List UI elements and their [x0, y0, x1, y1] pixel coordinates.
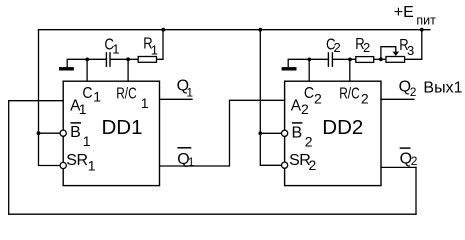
- node : R1 rail tee: [161, 28, 165, 32]
- svg-text:1: 1: [79, 101, 87, 117]
- node : C1 top tee: [85, 58, 89, 62]
- wire : C2 to R2: [333, 58, 356, 60]
- node : R/C2 top tee: [348, 58, 352, 62]
- wire : feedback left vertical: [8, 101, 10, 215]
- resistor R1: [138, 57, 156, 63]
- svg-text:DD2: DD2: [322, 116, 363, 139]
- wire : A1 input from feedback: [9, 100, 64, 102]
- svg-text:1: 1: [112, 41, 119, 56]
- svg-text:R/C: R/C: [339, 85, 360, 102]
- resistor R2: [356, 57, 374, 63]
- svg-text:2: 2: [305, 134, 313, 150]
- svg-text:2: 2: [411, 154, 418, 168]
- capacitor C2: [328, 52, 332, 67]
- svg-text:1: 1: [151, 42, 158, 57]
- svg-text:2: 2: [334, 40, 341, 55]
- svg-text:2: 2: [309, 157, 317, 173]
- label Q2-bar: [400, 147, 411, 149]
- svg-text:2: 2: [410, 85, 417, 99]
- svg-text:SR: SR: [289, 152, 310, 169]
- wire : +E power rail: [39, 29, 431, 31]
- block DD2: [285, 81, 381, 185]
- svg-text:1: 1: [141, 95, 149, 111]
- wire : C1 to R1: [111, 58, 139, 60]
- svg-text:1: 1: [83, 133, 91, 149]
- capacitor C1: [106, 52, 110, 67]
- svg-text:2: 2: [301, 101, 309, 117]
- node : R3 rail tee: [420, 28, 424, 32]
- wire : R/C1 pin vertical: [127, 59, 129, 81]
- node : B2 tee: [258, 131, 262, 135]
- svg-text:R/C: R/C: [116, 85, 137, 102]
- R3 wiper arrowhead: [393, 52, 400, 56]
- svg-text:Вых1: Вых1: [423, 79, 462, 96]
- inversion bubble B1: [60, 130, 66, 136]
- pin label B2 with overbar: [292, 122, 303, 124]
- svg-text:DD1: DD1: [102, 116, 143, 139]
- wire : B2 branch: [260, 132, 281, 134]
- node : C2 top tee: [308, 58, 312, 62]
- wire : Q1-bar to A2: [160, 100, 285, 166]
- wire : Q2-bar output: [381, 166, 416, 168]
- block DD1: [63, 81, 159, 185]
- wire : Q1 output stub: [160, 98, 193, 100]
- node : R/C1 top tee: [126, 57, 130, 61]
- inversion bubble SR2: [282, 162, 288, 168]
- wire : rail to B2/SR2 vertical: [260, 30, 281, 166]
- wire : feedback bottom: [9, 213, 416, 215]
- node : R2-R3 wiper tee: [379, 57, 383, 61]
- svg-text:B: B: [70, 124, 81, 141]
- pin label B1 with overbar: [71, 122, 82, 124]
- wire : R3 wiper arm: [381, 47, 396, 60]
- svg-text:пит: пит: [416, 13, 436, 27]
- wire : ground2 stem: [288, 59, 328, 67]
- wire : B1 branch: [39, 132, 61, 134]
- svg-text:2: 2: [314, 90, 322, 106]
- svg-text:1: 1: [93, 89, 101, 105]
- inversion bubble B2: [282, 130, 288, 136]
- wire : C2 pin vertical: [308, 59, 310, 81]
- svg-text:SR: SR: [66, 152, 87, 169]
- svg-text:1: 1: [188, 155, 195, 169]
- wire : C1 pin vertical: [86, 59, 88, 81]
- wire : ground1 stem: [67, 59, 106, 67]
- node : B1 tee: [37, 131, 41, 135]
- node : DD2 rail tee: [258, 28, 262, 32]
- svg-text:A: A: [291, 98, 302, 115]
- wire : R2 to R3: [374, 58, 386, 60]
- wire : feedback right vertical: [415, 167, 417, 214]
- wire : R3 to rail: [405, 30, 422, 60]
- svg-text:2: 2: [361, 91, 369, 107]
- inversion bubble SR1: [60, 162, 66, 168]
- svg-text:B: B: [292, 124, 303, 141]
- ground 2: [282, 67, 297, 70]
- svg-text:1: 1: [186, 86, 193, 100]
- wire : Q2 output stub: [381, 98, 414, 100]
- svg-text:2: 2: [363, 40, 370, 55]
- wire : R/C2 pin vertical: [349, 59, 351, 81]
- svg-text:+E: +E: [394, 4, 414, 21]
- label Q1-bar: [177, 147, 191, 149]
- resistor R3 (trimmer): [386, 57, 405, 63]
- ground 1: [59, 67, 74, 70]
- svg-text:C: C: [82, 85, 92, 102]
- wire : R1 to rail: [157, 30, 164, 60]
- wire : rail to B1/SR1 vertical: [39, 30, 61, 166]
- svg-text:3: 3: [407, 43, 414, 58]
- svg-text:C: C: [304, 85, 314, 102]
- svg-text:1: 1: [88, 158, 96, 174]
